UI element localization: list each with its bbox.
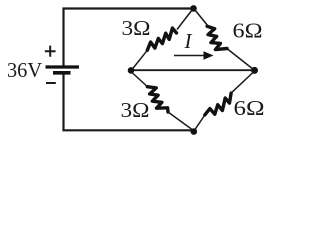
node: top junction dot [190, 5, 197, 12]
resistor 6ohm top-right: zigzag body [207, 26, 227, 49]
resistor 6ohm bottom-right: connector to right node [231, 72, 253, 93]
wire: bottom rail from battery to bottom node [64, 74, 195, 130]
svg-text:36V: 36V [7, 58, 42, 82]
wire: middle wire between left and right nodes [131, 69, 255, 71]
node: bottom junction dot [191, 128, 198, 135]
battery minus sign [46, 82, 56, 84]
resistor 6ohm top-right: connector from top node [195, 10, 208, 26]
battery B1 short plate (-) [53, 71, 71, 75]
wire: top rail from battery to top node [64, 9, 196, 68]
svg-text:3Ω: 3Ω [121, 98, 150, 122]
resistor 6ohm bottom-right: connector from bottom node [195, 115, 205, 130]
svg-text:I: I [184, 29, 193, 53]
resistor 3ohm top-left: connector from top node [177, 10, 192, 30]
resistor 3ohm bottom-left: connector to bottom node [168, 112, 193, 130]
resistor 3ohm bottom-left: connector from left node [132, 73, 148, 88]
current arrow [174, 55, 205, 57]
svg-text:3Ω: 3Ω [122, 16, 151, 40]
resistor 6ohm bottom-right: zigzag body [205, 93, 231, 115]
resistor 6ohm top-right: connector to right node [228, 49, 254, 70]
resistor 3ohm top-left: zigzag body [147, 28, 176, 50]
battery plus sign [45, 46, 56, 57]
svg-text:6Ω: 6Ω [234, 96, 265, 120]
resistor 3ohm top-left: connector to left node [132, 50, 147, 69]
battery B1 long plate (+) [46, 65, 80, 68]
node: left junction dot [128, 67, 135, 74]
node: right junction dot [251, 67, 258, 74]
resistor 3ohm bottom-left: zigzag body [147, 87, 168, 112]
svg-text:6Ω: 6Ω [233, 19, 263, 43]
